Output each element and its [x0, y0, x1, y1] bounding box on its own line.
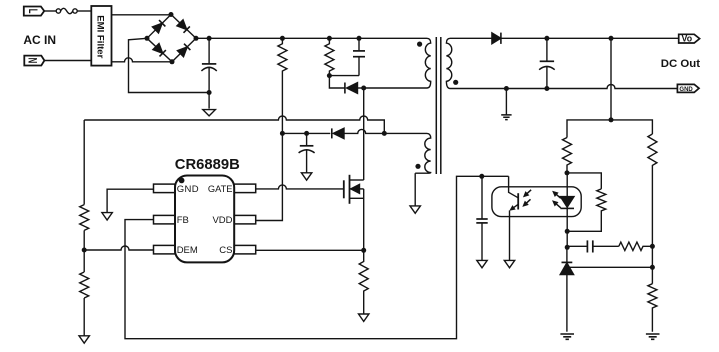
- svg-text:GATE: GATE: [208, 184, 233, 194]
- ground (aux winding): [410, 206, 420, 213]
- optocoupler phototransistor: [508, 176, 518, 260]
- wire divider middle: [83, 230, 85, 272]
- terminal Vo: [679, 33, 700, 43]
- EMI filter block: [91, 6, 111, 66]
- pin GATE: [234, 184, 256, 193]
- ground (opto cap): [477, 260, 487, 267]
- compensation capacitor C6: [567, 240, 619, 252]
- resistor R5 (current sense): [359, 250, 368, 314]
- junction drain node top: [361, 86, 366, 91]
- wire opto collector junction: [479, 174, 484, 179]
- wire FB top rail: [567, 120, 652, 138]
- svg-text:GND: GND: [679, 86, 692, 93]
- capacitor C1 (bulk): [201, 38, 216, 108]
- junction C2 top: [357, 36, 362, 41]
- phase dot primary: [417, 42, 422, 47]
- wire secondary top to output diode: [453, 37, 492, 39]
- wire secondary bottom rail with hop: [453, 85, 677, 89]
- ground (left divider): [79, 336, 89, 343]
- wire drain vertical: [363, 88, 365, 180]
- svg-text:AC IN: AC IN: [23, 33, 56, 47]
- wire FB loop to optocoupler: [125, 176, 509, 338]
- bridge diode D3 (lower-left): [153, 43, 166, 56]
- earth ground (divider): [646, 334, 660, 339]
- junction DEM divider: [82, 248, 87, 253]
- wire snubber RC bottom: [329, 75, 359, 77]
- capacitor C3 (VDD): [299, 133, 315, 172]
- transformer core: [436, 37, 441, 174]
- earth ground (TL431): [560, 334, 574, 339]
- wire DEM with hop: [84, 246, 153, 250]
- wire aux bottom to ground: [414, 173, 416, 206]
- junction bridge right: [194, 36, 199, 41]
- earth ground (secondary): [501, 115, 511, 120]
- light arrows to phototransistor: [520, 188, 533, 209]
- MOSFET Q1: [344, 175, 364, 251]
- phase dot aux: [415, 164, 420, 169]
- wire LED cathode down: [566, 231, 568, 247]
- junction secondary gnd: [504, 86, 509, 91]
- svg-text:VDD: VDD: [212, 215, 232, 226]
- pin FB: [154, 215, 176, 224]
- terminal GND: [677, 84, 699, 93]
- wire to earth (secondary): [505, 89, 507, 115]
- pin 1 dot: [179, 178, 185, 184]
- pin CS: [234, 245, 256, 254]
- pin GND: [154, 184, 176, 193]
- svg-text:EMI Filter: EMI Filter: [95, 15, 106, 58]
- svg-text:GND: GND: [177, 184, 199, 195]
- wire N to EMI filter: [44, 60, 91, 62]
- ground (VDD cap): [301, 173, 311, 180]
- wire Vo sense drop: [610, 38, 612, 120]
- pin DEM: [154, 245, 176, 254]
- shunt regulator D8 (TL431): [560, 247, 573, 331]
- wire VDD pin: [256, 133, 283, 220]
- capacitor C2 (snubber): [353, 38, 365, 75]
- resistor R3 (DEM divider upper): [80, 205, 89, 231]
- junction snubber: [327, 73, 332, 78]
- ground (opto emitter): [504, 260, 514, 267]
- junction bridge bottom: [170, 59, 175, 64]
- svg-text:DEM: DEM: [177, 245, 198, 256]
- junction C5 bottom: [544, 86, 549, 91]
- junction R2 top: [327, 36, 332, 41]
- bridge diode D4 (lower-right): [177, 44, 190, 57]
- wire1 VDD startup rail with hops: [84, 116, 384, 133]
- optocoupler U2 capsule: [492, 187, 581, 217]
- junction ref node: [650, 265, 655, 270]
- junction wire2 left: [280, 131, 285, 136]
- junction compensation right: [650, 244, 655, 249]
- resistor R6 (LED series): [563, 138, 572, 173]
- wire TL431 ref: [567, 266, 653, 268]
- junction C1 top: [207, 36, 212, 41]
- wire output rail to Vo: [501, 37, 679, 39]
- diode D6 (output rectifier): [492, 33, 501, 44]
- pin VDD: [234, 215, 256, 224]
- resistor R2 (snubber): [325, 38, 334, 75]
- wire gate with hop: [256, 185, 344, 189]
- junction FB rail: [609, 117, 614, 122]
- phase dot secondary: [453, 80, 458, 85]
- resistor R1 (startup, from top rail): [278, 38, 287, 133]
- bridge rectifier frame: [147, 15, 196, 62]
- terminal L: [24, 7, 44, 16]
- capacitor C4 (opto filter): [476, 176, 487, 260]
- bridge diode D2 (upper-right): [177, 20, 190, 33]
- wire2 DEM/VDD rail: [282, 129, 421, 133]
- fuse F1: [56, 8, 77, 13]
- junction C1 bottom: [207, 90, 212, 95]
- transformer T1 secondary winding: [446, 38, 453, 88]
- ground (bulk cap): [203, 110, 216, 116]
- junction LED top: [565, 170, 570, 175]
- wire EMI filter to bridge bottom (N), hop over minus wire: [112, 58, 173, 62]
- resistor R4 (DEM divider lower): [80, 272, 89, 298]
- junction bridge left: [145, 36, 150, 41]
- diode D7 (DEM): [332, 128, 344, 138]
- svg-text:CR6889B: CR6889B: [175, 157, 240, 173]
- IC U1 CR6889B body: [175, 176, 234, 263]
- junction C5 top: [544, 36, 549, 41]
- junction compensation node: [565, 245, 570, 250]
- junction MOSFET source: [361, 248, 366, 253]
- svg-text:Vo: Vo: [682, 33, 693, 43]
- wire EMI filter to bridge top: [112, 14, 170, 16]
- wire fuse to EMI filter: [77, 10, 91, 12]
- transformer T1 aux winding: [415, 133, 431, 173]
- svg-text:L: L: [25, 9, 38, 14]
- junction wire2 cap: [304, 131, 309, 136]
- wire snubber to diode: [329, 76, 345, 88]
- resistor R7 (LED parallel): [567, 189, 606, 231]
- optocoupler LED: [560, 173, 574, 231]
- junction R1 top: [280, 36, 285, 41]
- svg-text:N: N: [25, 58, 38, 64]
- wire bridge minus to bulk cap: [129, 38, 210, 92]
- bridge diode D1 (upper-left): [152, 20, 165, 33]
- junction bridge top: [169, 12, 174, 17]
- junction wire2 right: [382, 131, 387, 136]
- capacitor C5 (output): [539, 38, 555, 88]
- wire left divider top: [83, 120, 85, 205]
- ground (sense resistor): [359, 314, 369, 321]
- wire L lead: [44, 10, 56, 12]
- junction Vo sense top: [609, 36, 614, 41]
- terminal N: [24, 56, 44, 66]
- wire top rail: [196, 37, 424, 39]
- wire primary bottom to drain node: [364, 87, 424, 89]
- junction LED bottom: [565, 229, 570, 234]
- wire divider bottom: [83, 298, 85, 336]
- resistor R10 (divider lower): [648, 284, 657, 332]
- light arrows from LED: [550, 189, 563, 210]
- resistor R9 (divider upper): [648, 134, 657, 284]
- diode D5 (snubber clamp): [345, 83, 364, 94]
- ground (IC GND): [102, 213, 112, 220]
- wire CS pin to sense: [256, 249, 364, 251]
- resistor R8 (compensation): [619, 242, 653, 250]
- transformer T1 primary winding: [424, 38, 431, 88]
- svg-text:FB: FB: [177, 215, 189, 226]
- svg-text:CS: CS: [219, 245, 232, 256]
- wire GND pin to ground: [107, 189, 153, 212]
- wire LED bias branch: [567, 173, 601, 189]
- svg-text:DC Out: DC Out: [661, 58, 700, 70]
